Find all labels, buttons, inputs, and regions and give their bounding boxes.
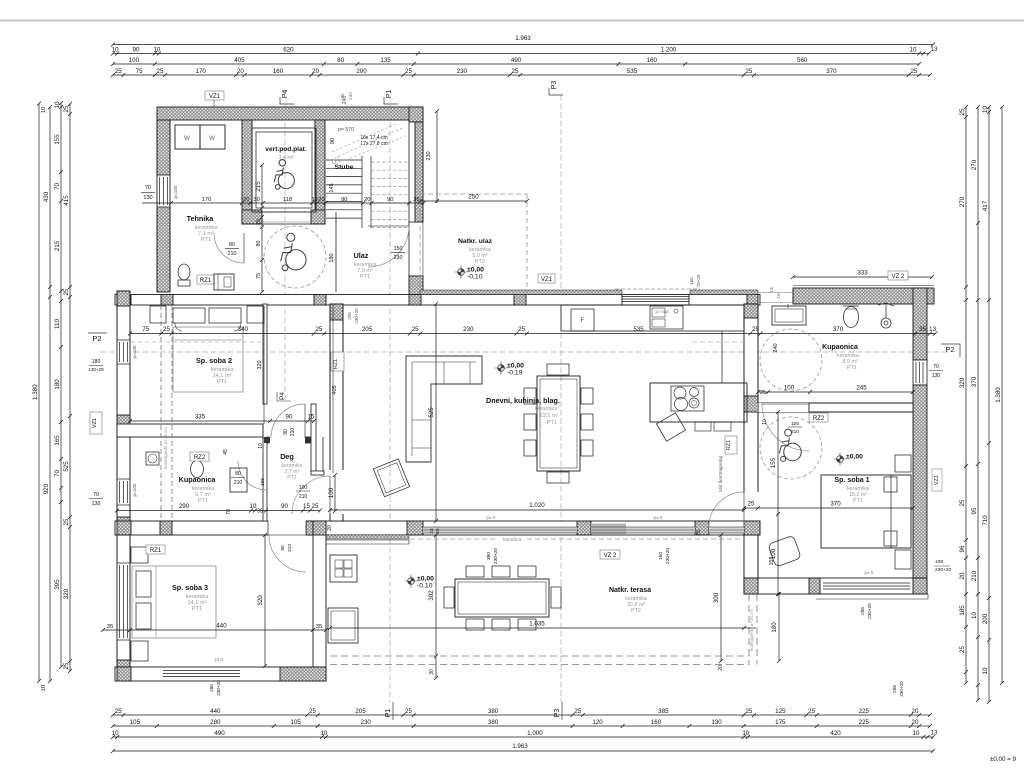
svg-text:53,5 m²: 53,5 m² [540,413,559,419]
svg-text:25: 25 [63,662,70,669]
svg-text:230+20: 230+20 [493,548,499,564]
svg-text:10: 10 [112,47,119,54]
svg-text:p= 570: p= 570 [338,127,354,133]
svg-text:210: 210 [228,251,237,257]
svg-text:Natkr. terasa: Natkr. terasa [609,587,651,594]
svg-text:vert.pod.plat.: vert.pod.plat. [265,146,307,153]
svg-text:10: 10 [153,47,160,54]
svg-text:P3: P3 [551,81,558,90]
svg-text:RZ1: RZ1 [200,278,212,284]
svg-text:25: 25 [412,326,419,333]
svg-text:135: 135 [380,57,391,64]
svg-text:W: W [209,135,216,142]
svg-text:45: 45 [223,449,229,455]
svg-text:300: 300 [713,592,720,603]
svg-text:17x 27,8 cm: 17x 27,8 cm [360,141,387,147]
svg-text:180: 180 [92,359,101,365]
svg-text:210: 210 [234,480,243,486]
svg-text:420: 420 [830,730,841,737]
svg-text:30: 30 [429,669,435,675]
svg-text:320: 320 [257,360,263,369]
svg-text:120: 120 [592,719,603,726]
svg-text:±0,00: ±0,00 [846,454,863,461]
svg-text:155: 155 [54,134,61,145]
svg-text:215: 215 [54,240,61,251]
svg-text:125: 125 [775,708,786,715]
svg-text:PT1: PT1 [847,365,857,371]
svg-text:25: 25 [63,105,70,112]
svg-text:P2: P2 [945,345,954,354]
svg-text:10: 10 [910,47,917,54]
svg-text:100: 100 [784,385,795,392]
svg-text:210: 210 [791,429,799,435]
svg-text:VZ1: VZ1 [209,94,221,100]
svg-text:100: 100 [129,57,140,64]
svg-text:20: 20 [912,719,919,726]
svg-text:20: 20 [312,68,319,75]
svg-text:75: 75 [142,326,149,333]
svg-text:10: 10 [320,730,327,737]
svg-text:205: 205 [347,312,352,320]
svg-text:25: 25 [959,108,966,115]
svg-text:10: 10 [41,685,47,691]
svg-text:25: 25 [163,326,170,333]
svg-text:230: 230 [457,68,468,75]
svg-text:302: 302 [428,590,435,601]
svg-text:p± 0: p± 0 [487,515,496,520]
svg-text:258: 258 [892,685,897,693]
svg-text:PT1: PT1 [198,498,208,504]
svg-text:118: 118 [283,197,292,203]
svg-text:200: 200 [982,613,989,624]
svg-text:25: 25 [256,219,262,225]
svg-text:1.963: 1.963 [515,35,531,42]
svg-text:430: 430 [43,191,50,202]
svg-text:25: 25 [405,708,412,715]
svg-text:210: 210 [299,494,308,500]
svg-text:88: 88 [340,93,345,99]
svg-text:23: 23 [429,528,434,534]
svg-text:10: 10 [971,612,978,619]
svg-text:-0,19: -0,19 [507,370,523,377]
svg-text:P1: P1 [386,90,393,99]
svg-text:PT1: PT1 [547,420,557,426]
svg-text:PT1: PT1 [217,379,227,385]
svg-text:VZ1: VZ1 [934,475,940,485]
svg-text:10: 10 [54,101,61,108]
svg-text:±0,00: ±0,00 [467,267,484,274]
svg-text:13: 13 [931,730,938,737]
svg-text:175: 175 [775,719,786,726]
svg-text:RZ2: RZ2 [813,416,825,422]
svg-text:96: 96 [959,545,966,552]
svg-text:710: 710 [982,515,989,526]
svg-text:230+20: 230+20 [216,680,221,696]
svg-text:95: 95 [971,507,978,514]
svg-text:-0,10: -0,10 [417,583,433,590]
svg-text:70: 70 [145,185,151,191]
svg-text:70: 70 [54,470,61,477]
svg-text:25: 25 [574,708,581,715]
svg-text:15: 15 [308,414,315,421]
svg-text:10: 10 [982,106,989,113]
svg-text:90: 90 [280,545,286,551]
svg-text:PT2: PT2 [631,608,641,614]
svg-text:80: 80 [337,57,344,64]
svg-text:340: 340 [238,326,249,333]
svg-text:RZ1: RZ1 [726,440,732,451]
svg-text:145: 145 [329,183,335,192]
svg-text:240: 240 [348,92,353,100]
svg-text:RZ1: RZ1 [150,548,162,554]
svg-text:440: 440 [216,623,227,630]
svg-text:620: 620 [283,47,294,54]
svg-text:560: 560 [797,57,808,64]
svg-text:380: 380 [486,552,492,560]
svg-text:205: 205 [355,708,366,715]
svg-text:Sp. soba 1: Sp. soba 1 [834,477,869,484]
svg-text:1.020: 1.020 [529,502,545,509]
svg-text:13: 13 [931,46,938,53]
svg-text:25: 25 [745,708,752,715]
svg-text:20: 20 [364,197,370,203]
svg-text:535: 535 [627,68,638,75]
svg-text:210: 210 [290,428,296,437]
svg-text:Tehnika: Tehnika [187,214,215,223]
svg-text:160: 160 [273,68,284,75]
svg-text:20: 20 [237,68,244,75]
svg-text:25: 25 [63,288,70,295]
svg-text:230+20: 230+20 [354,308,359,324]
svg-text:70: 70 [226,509,232,515]
svg-text:230: 230 [394,255,403,261]
svg-text:1.380: 1.380 [32,384,39,400]
svg-text:130: 130 [711,719,722,726]
svg-text:155: 155 [770,457,777,468]
svg-text:195: 195 [260,478,266,486]
svg-text:13: 13 [929,326,936,333]
svg-text:335: 335 [195,414,206,421]
svg-text:320: 320 [63,588,70,599]
svg-text:25: 25 [696,530,702,536]
svg-text:385: 385 [658,708,669,715]
svg-text:150: 150 [394,246,403,252]
svg-text:100: 100 [328,487,335,498]
svg-text:415: 415 [63,195,70,206]
svg-text:90: 90 [283,429,289,435]
svg-text:25: 25 [752,326,759,333]
svg-text:90: 90 [286,414,293,421]
svg-text:25: 25 [512,68,519,75]
svg-text:20: 20 [959,572,966,579]
svg-text:25: 25 [63,518,70,525]
svg-text:180: 180 [329,253,335,262]
svg-text:20: 20 [718,665,724,671]
svg-text:370: 370 [826,68,837,75]
svg-text:370: 370 [830,501,841,508]
svg-text:35: 35 [257,509,263,515]
svg-text:25: 25 [115,708,122,715]
svg-text:370: 370 [833,326,844,333]
svg-text:Kupaonica: Kupaonica [179,475,217,484]
svg-text:290: 290 [179,503,190,510]
svg-text:230: 230 [463,326,474,333]
svg-text:35: 35 [107,624,113,630]
svg-text:100: 100 [299,485,308,491]
svg-text:80: 80 [235,471,241,477]
svg-text:270: 270 [971,159,978,170]
svg-text:210: 210 [287,544,293,552]
svg-text:1.963: 1.963 [512,743,528,750]
svg-text:200: 200 [356,68,367,75]
svg-text:370: 370 [971,376,978,387]
svg-text:160: 160 [647,57,658,64]
svg-text:p=100: p=100 [173,185,178,198]
svg-text:230+20: 230+20 [665,548,671,564]
svg-text:225: 225 [859,719,870,726]
svg-text:PT1: PT1 [201,237,211,243]
svg-text:Dnevni, kuhinja, blag.: Dnevni, kuhinja, blag. [486,396,560,405]
svg-text:25: 25 [748,501,755,508]
svg-text:20: 20 [243,197,249,203]
svg-text:VZ1: VZ1 [92,418,98,428]
svg-text:160: 160 [658,552,664,560]
svg-text:p± 0: p± 0 [865,570,874,575]
svg-text:kontragreda ø+25 cm: kontragreda ø+25 cm [163,427,168,469]
svg-text:25: 25 [910,68,917,75]
svg-text:20: 20 [912,708,919,715]
svg-text:75: 75 [256,273,262,279]
svg-text:25: 25 [808,708,815,715]
svg-text:Deg: Deg [280,452,294,461]
svg-text:12: 12 [312,197,318,203]
svg-text:90: 90 [133,47,140,54]
svg-text:80: 80 [229,242,235,248]
svg-text:230: 230 [361,719,372,726]
svg-text:p=100: p=100 [132,483,137,496]
svg-text:205: 205 [362,326,373,333]
svg-text:25: 25 [309,708,316,715]
svg-text:230+20: 230+20 [935,567,951,573]
svg-text:245: 245 [856,385,867,392]
svg-text:1.380: 1.380 [995,387,1002,403]
svg-text:Sp. soba 3: Sp. soba 3 [172,583,208,592]
svg-text:535: 535 [633,326,644,333]
svg-text:210: 210 [971,570,978,581]
svg-text:110: 110 [54,319,61,329]
svg-text:130+28: 130+28 [88,367,104,372]
svg-text:180: 180 [54,379,61,390]
svg-text:90: 90 [341,197,347,203]
svg-text:keramika: keramika [535,406,559,412]
svg-text:165: 165 [54,435,61,446]
svg-text:70: 70 [933,364,939,370]
svg-text:185: 185 [959,605,966,616]
svg-text:280: 280 [210,719,221,726]
svg-text:35: 35 [919,326,926,333]
svg-text:F: F [581,317,585,324]
svg-text:RZ1: RZ1 [333,359,339,370]
svg-text:PT1: PT1 [360,274,370,280]
svg-text:170: 170 [196,68,207,75]
svg-text:kontragreda ø+25 cm: kontragreda ø+25 cm [749,609,754,651]
svg-text:P4: P4 [279,392,286,400]
svg-text:Sp. soba 2: Sp. soba 2 [196,356,232,365]
svg-text:75: 75 [136,68,143,75]
svg-text:Ulaz: Ulaz [354,251,369,260]
svg-text:490: 490 [214,730,225,737]
svg-text:215: 215 [255,181,262,192]
svg-text:p= nad: p= nad [656,309,670,314]
svg-text:Stube: Stube [335,164,354,171]
svg-text:320: 320 [959,377,966,388]
svg-text:10: 10 [742,730,749,737]
svg-text:90: 90 [387,197,393,203]
svg-text:Natkr. ulaz: Natkr. ulaz [458,238,493,245]
svg-text:10: 10 [112,730,119,737]
svg-text:140 (kontragreda): 140 (kontragreda) [718,455,723,492]
svg-text:25: 25 [115,68,122,75]
svg-text:1.035: 1.035 [529,621,545,628]
svg-text:10: 10 [250,503,257,510]
svg-text:PT1: PT1 [287,475,297,481]
svg-text:10: 10 [776,293,782,299]
svg-text:P4: P4 [282,90,289,99]
svg-text:170: 170 [202,197,212,203]
svg-text:P2: P2 [92,334,101,343]
svg-text:395: 395 [54,579,61,590]
svg-text:20: 20 [327,525,333,531]
svg-text:10: 10 [982,667,989,674]
svg-text:±0,00: ±0,00 [417,576,434,583]
svg-text:10: 10 [762,419,768,425]
svg-text:13: 13 [769,287,775,293]
svg-text:Kupaonica: Kupaonica [822,344,858,351]
svg-text:920: 920 [43,483,50,494]
svg-text:250: 250 [468,194,479,201]
svg-text:70: 70 [54,183,61,190]
svg-text:105: 105 [130,719,141,726]
svg-text:280: 280 [209,684,214,692]
svg-text:90: 90 [281,503,288,510]
svg-text:10: 10 [258,443,264,449]
svg-text:kanalica: kanalica [503,537,522,543]
svg-text:100: 100 [770,548,777,559]
svg-text:105: 105 [291,719,302,726]
svg-text:230+20: 230+20 [899,681,904,697]
svg-text:PT1: PT1 [192,606,202,612]
svg-text:70: 70 [93,492,99,498]
svg-text:230+20: 230+20 [867,603,872,619]
svg-text:70+20: 70+20 [696,274,701,287]
svg-text:10: 10 [41,107,47,113]
svg-text:35: 35 [316,624,322,630]
svg-text:25: 25 [959,499,966,506]
svg-text:30: 30 [253,197,259,203]
svg-text:10: 10 [913,730,920,737]
svg-text:1.000: 1.000 [527,730,543,737]
svg-text:160: 160 [651,719,662,726]
svg-text:80: 80 [256,241,262,247]
svg-text:130: 130 [143,195,152,201]
svg-text:25: 25 [405,68,412,75]
svg-text:130: 130 [92,501,101,507]
svg-text:20: 20 [318,197,324,203]
svg-text:525: 525 [428,407,435,418]
svg-text:258: 258 [860,607,865,615]
svg-text:PT1: PT1 [853,498,863,504]
svg-text:270: 270 [959,196,966,207]
svg-text:VZ 2: VZ 2 [604,553,617,559]
svg-text:25: 25 [312,503,319,510]
svg-text:130: 130 [932,373,941,379]
svg-text:25: 25 [157,68,164,75]
svg-text:525: 525 [63,461,70,472]
svg-text:25: 25 [435,528,440,534]
svg-text:pt 0: pt 0 [215,657,223,663]
svg-text:180: 180 [771,622,778,633]
svg-text:240: 240 [773,343,779,352]
svg-text:25: 25 [959,646,966,653]
svg-text:±0,00: ±0,00 [507,363,524,370]
svg-text:25: 25 [518,326,525,333]
svg-text:90: 90 [330,138,336,144]
svg-text:333: 333 [857,270,868,277]
svg-text:405: 405 [234,57,245,64]
svg-text:417: 417 [982,200,989,211]
svg-text:25: 25 [760,390,766,396]
svg-text:1.200: 1.200 [661,47,677,54]
svg-text:p± 0: p± 0 [654,515,663,520]
svg-text:225: 225 [859,708,870,715]
svg-text:PT2: PT2 [475,259,485,265]
svg-text:490: 490 [511,57,522,64]
svg-text:VZ 2: VZ 2 [892,274,905,280]
svg-text:RZ2: RZ2 [194,455,206,461]
svg-text:230: 230 [426,151,432,160]
svg-text:320: 320 [257,595,264,606]
svg-text:100: 100 [791,421,799,427]
svg-text:108: 108 [935,559,943,565]
svg-text:P3: P3 [554,709,561,718]
svg-text:15: 15 [303,503,310,510]
svg-text:p=100: p=100 [132,345,137,358]
svg-text:W: W [184,135,191,142]
svg-text:440: 440 [210,708,221,715]
svg-text:25: 25 [316,326,323,333]
svg-text:380: 380 [488,708,499,715]
svg-text:-0,10: -0,10 [467,274,483,281]
svg-text:VZ1: VZ1 [541,277,553,283]
svg-text:380: 380 [488,719,499,726]
svg-text:±0,00 = 9: ±0,00 = 9 [990,756,1016,763]
svg-text:160: 160 [689,277,694,285]
svg-text:25: 25 [745,68,752,75]
svg-text:P1: P1 [385,709,392,718]
